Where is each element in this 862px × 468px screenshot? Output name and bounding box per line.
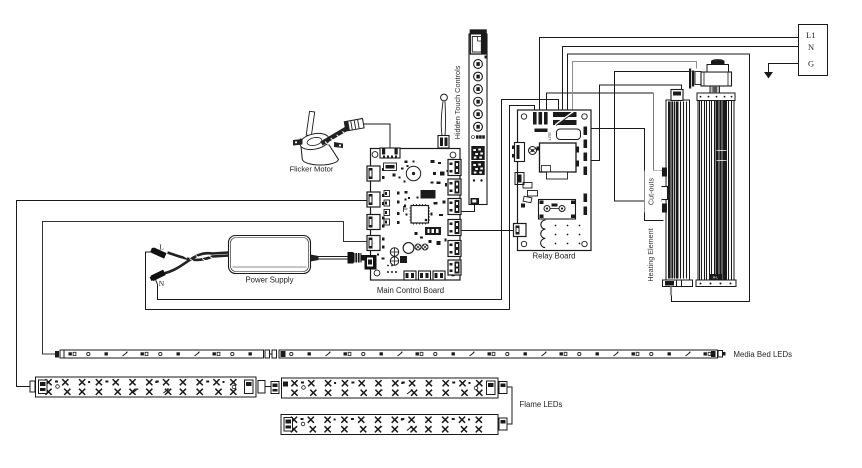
svg-text:Power Supply: Power Supply xyxy=(245,276,293,285)
svg-text:Media Bed LEDs: Media Bed LEDs xyxy=(734,350,793,359)
svg-text:A-L: A-L xyxy=(713,276,719,280)
svg-text:Main Control Board: Main Control Board xyxy=(377,286,444,295)
svg-text:Heating Element: Heating Element xyxy=(646,228,655,281)
svg-text:N: N xyxy=(808,42,814,52)
svg-text:N: N xyxy=(159,279,165,288)
svg-text:Relay Board: Relay Board xyxy=(533,252,576,261)
svg-text:Flicker Motor: Flicker Motor xyxy=(290,165,334,174)
svg-text:L: L xyxy=(159,243,164,252)
svg-text:L1: L1 xyxy=(806,30,815,40)
svg-text:Flame LEDs: Flame LEDs xyxy=(520,400,563,409)
svg-text:Hidden Touch Controls: Hidden Touch Controls xyxy=(453,65,462,139)
svg-text:LITE: LITE xyxy=(547,132,552,141)
svg-text:G: G xyxy=(808,59,814,69)
svg-text:Cut-outs: Cut-outs xyxy=(646,178,655,206)
